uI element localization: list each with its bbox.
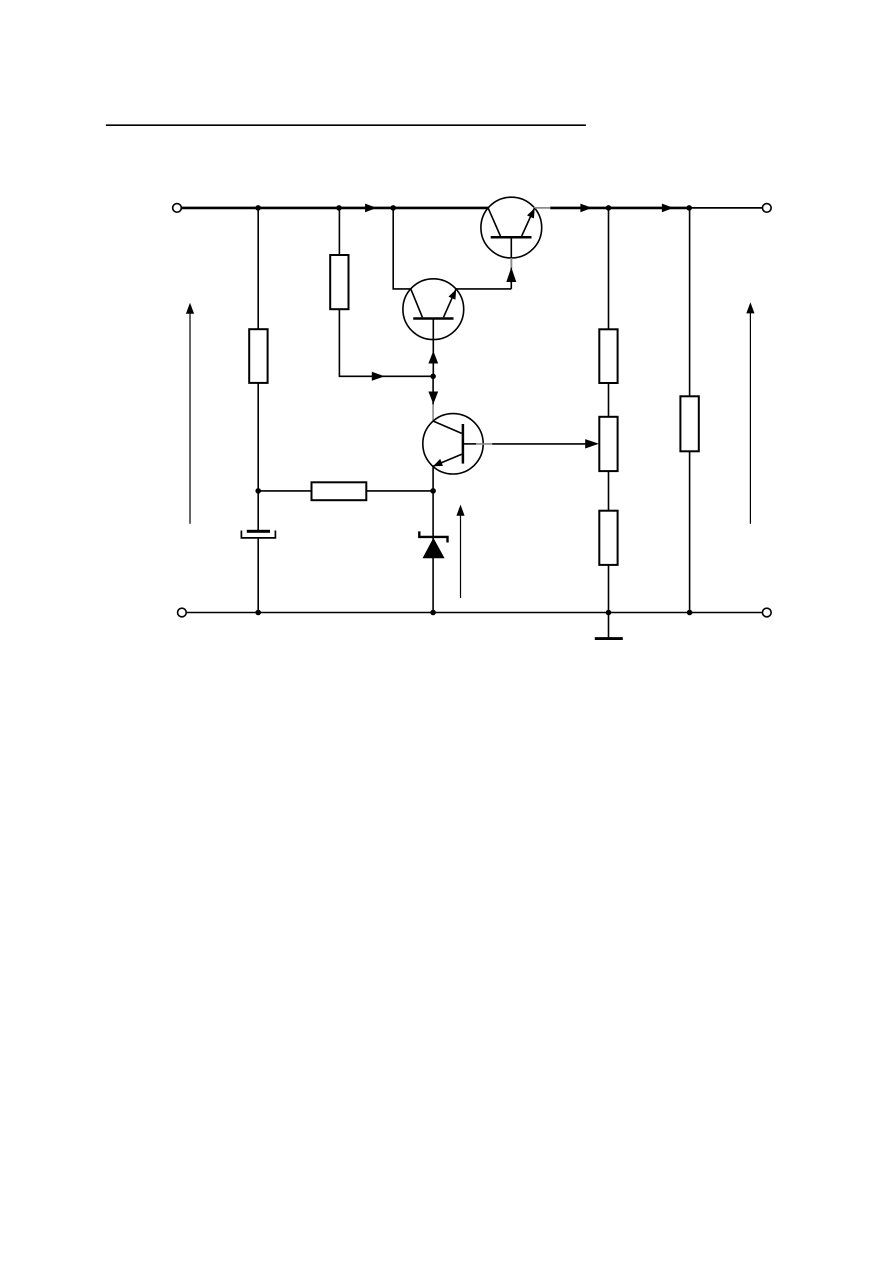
current arrow Iz (zener branch) <box>456 505 464 598</box>
current arrow on top rail (left) <box>365 204 377 213</box>
voltage arrow Ue (input side) <box>186 303 194 524</box>
wire Q3 base lead faded stub <box>476 443 492 445</box>
capacitor C1 negative plate (tray) <box>241 531 275 538</box>
wire top rail to output terminal <box>689 207 762 209</box>
current arrow on top rail (right) <box>662 204 674 213</box>
current arrow on R2 wire <box>372 372 385 381</box>
title underline rule <box>106 124 586 126</box>
wire Q3 emitter to zener <box>432 466 434 613</box>
resistor RL (load) <box>680 396 698 451</box>
ground <box>595 613 623 639</box>
wire Q2 base to Q3 collector <box>432 376 434 404</box>
wire Q3 collector lead (faded) <box>432 404 434 421</box>
node Q3 emitter / R3 <box>430 488 436 494</box>
output terminal bottom (open circle) <box>762 608 771 617</box>
voltage arrow Ua (output side) <box>746 302 754 523</box>
wire top rail (bold, Q1 to load node) <box>550 207 689 210</box>
wire divider branch <box>608 208 610 613</box>
resistor R5 (divider bottom) <box>599 511 617 565</box>
node top rail Q2 collector branch <box>390 205 396 211</box>
resistor R3 (feedback) <box>312 482 367 500</box>
node top rail R2 branch <box>336 205 342 211</box>
wire bottom rail <box>186 612 762 614</box>
wire R2 branch <box>339 208 433 376</box>
wire top rail faded stub at Q1 emitter <box>534 207 551 209</box>
node top rail R1 branch <box>255 205 261 211</box>
node bottom rail C1 <box>255 610 261 616</box>
wire Q2 collector branch / Q2 emitter to Q1 base <box>393 208 511 289</box>
potentiometer P1 body <box>599 417 617 471</box>
current arrow on top rail (middle) <box>580 204 592 213</box>
input terminal top (open circle) <box>173 204 182 213</box>
current arrow to Q3 collector <box>428 392 438 405</box>
current arrow into Q1 base <box>506 267 516 282</box>
wire R1 branch <box>257 208 259 531</box>
node R1 / R3 junction <box>255 488 261 494</box>
zener diode D1 <box>419 531 447 558</box>
resistor R2 <box>330 255 348 309</box>
node top rail load branch <box>686 205 692 211</box>
capacitor C1 positive plate <box>247 530 270 533</box>
input terminal bottom (open circle) <box>178 608 187 617</box>
output terminal top (open circle) <box>762 204 771 213</box>
transistor Q3 (error amplifier, NPN, mirrored) <box>423 414 492 474</box>
transistor Q2 (driver, NPN) <box>403 279 464 376</box>
node top rail divider branch <box>606 205 612 211</box>
wire top rail (bold, input to Q1) <box>181 207 491 210</box>
wire R3 feedback row <box>258 490 433 492</box>
wire Q3 base to potentiometer wiper <box>492 443 585 445</box>
node bottom rail load <box>687 610 693 616</box>
transistor Q1 (series pass, NPN) <box>481 197 550 289</box>
wire C1 to bottom rail <box>257 538 259 613</box>
node bottom rail D1 <box>430 610 436 616</box>
node Q2 base / Q3 collector <box>430 374 436 380</box>
current arrow into Q2 base <box>428 351 438 364</box>
resistor R4 (divider top) <box>599 329 617 383</box>
wire load branch <box>689 208 691 613</box>
wire Q1 base lead faded stub <box>510 258 512 268</box>
node bottom rail divider <box>606 610 612 616</box>
potentiometer wiper arrow <box>585 439 599 448</box>
resistor R1 <box>249 329 267 383</box>
